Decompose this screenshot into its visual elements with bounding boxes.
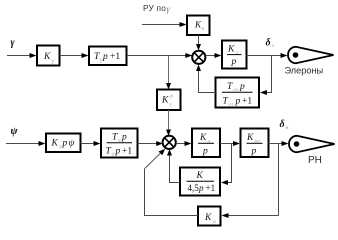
svg-text:ψ: ψ: [11, 126, 19, 137]
block K_n/p: [192, 129, 220, 158]
svg-text:p: p: [121, 133, 127, 143]
wire K_e/p output to aileron: [247, 53, 288, 58]
wire T_psi to summing junction 2: [138, 141, 164, 146]
node delta_e label: [266, 38, 275, 50]
svg-text:ψ: ψ: [170, 94, 174, 100]
svg-text:p: p: [239, 82, 245, 92]
svg-text:Элероны: Элероны: [285, 66, 324, 76]
svg-text:4,5: 4,5: [188, 183, 200, 193]
aileron symbol: [288, 47, 334, 63]
block K_RU: [187, 16, 210, 36]
wire K/(4.5p+1) to summing junction 2: [167, 149, 180, 183]
block K_e/p: [222, 41, 247, 69]
svg-text:p: p: [62, 139, 68, 149]
block T_gamma_p+1: [89, 47, 127, 66]
svg-text:K: K: [199, 133, 207, 143]
wire K_n/p to K_rn/p: [220, 141, 240, 146]
svg-text:K: K: [204, 213, 212, 223]
wire K_rn/p output to rudder: [269, 141, 289, 146]
wire T_oe to summing junction 1: [196, 65, 216, 94]
wire summing junction 1 to K_e/p: [206, 53, 222, 58]
node psi input label: [11, 126, 19, 137]
block K_psi_p_psi: [46, 134, 81, 153]
wire K_psi_feedback to summing junction 2: [144, 149, 198, 216]
label Elerony: [285, 66, 324, 76]
block T_oe_p/(T_oe_p+1): [216, 78, 260, 108]
label RN: [308, 155, 322, 166]
svg-text:p: p: [202, 147, 208, 157]
svg-text:РН: РН: [308, 155, 322, 166]
wire cross-coupling down: [166, 56, 171, 90]
block K_gamma: [37, 46, 60, 66]
summing junction 1 (roll): [192, 51, 205, 64]
svg-text:δ: δ: [266, 38, 271, 49]
label RU po gamma: [143, 3, 171, 14]
svg-text:+1: +1: [122, 147, 132, 157]
svg-text:K: K: [51, 139, 59, 149]
svg-text:p: p: [115, 147, 121, 157]
node delta_n label: [280, 119, 289, 131]
block K_rn/p: [241, 129, 269, 158]
wire gamma input: [7, 53, 37, 58]
wire summing junction 2 to K_n/p: [176, 141, 192, 146]
svg-text:K: K: [246, 133, 254, 143]
svg-text:p: p: [235, 97, 241, 107]
wire RU input: [142, 22, 187, 27]
block K_gamma^psi: [157, 90, 181, 111]
svg-text:p: p: [102, 52, 108, 62]
wire T_gamma to summing junction 1: [127, 53, 192, 58]
svg-text:p: p: [198, 183, 204, 193]
svg-text:K: K: [227, 45, 235, 55]
svg-text:н: н: [286, 125, 289, 131]
svg-text:p: p: [231, 57, 237, 67]
svg-text:н: н: [202, 26, 205, 32]
svg-text:K: K: [43, 52, 51, 62]
wire servo feedback tap: [221, 144, 232, 186]
wire K_RU down to summing junction 1: [196, 35, 201, 51]
block K_psi_feedback: [198, 207, 221, 226]
summing junction 2 (yaw): [163, 136, 176, 149]
svg-text:РУ по: РУ по: [143, 3, 166, 13]
block K/(4.5p+1): [180, 168, 220, 196]
svg-text:+1: +1: [242, 97, 252, 107]
wire K_psi to T_psi: [81, 141, 101, 146]
svg-text:+1: +1: [206, 183, 216, 193]
svg-text:ψ: ψ: [213, 219, 217, 225]
rudder symbol: [289, 136, 335, 152]
wire outer feedback tap: [222, 144, 279, 219]
svg-text:K: K: [161, 96, 169, 106]
wire K_gamma^psi to summing junction 2: [166, 110, 171, 136]
svg-text:p: p: [251, 147, 257, 157]
block T_psi_p/(T_psi_p+1): [101, 129, 138, 158]
svg-text:+1: +1: [110, 52, 120, 62]
wire K_gamma to T_gamma: [60, 53, 89, 58]
svg-text:оэ: оэ: [229, 102, 235, 108]
svg-text:δ: δ: [280, 119, 285, 130]
wire aileron feedback tap: [260, 56, 272, 96]
node gamma input label: [11, 38, 16, 49]
svg-text:K: K: [196, 171, 204, 181]
wire psi input: [6, 141, 46, 146]
